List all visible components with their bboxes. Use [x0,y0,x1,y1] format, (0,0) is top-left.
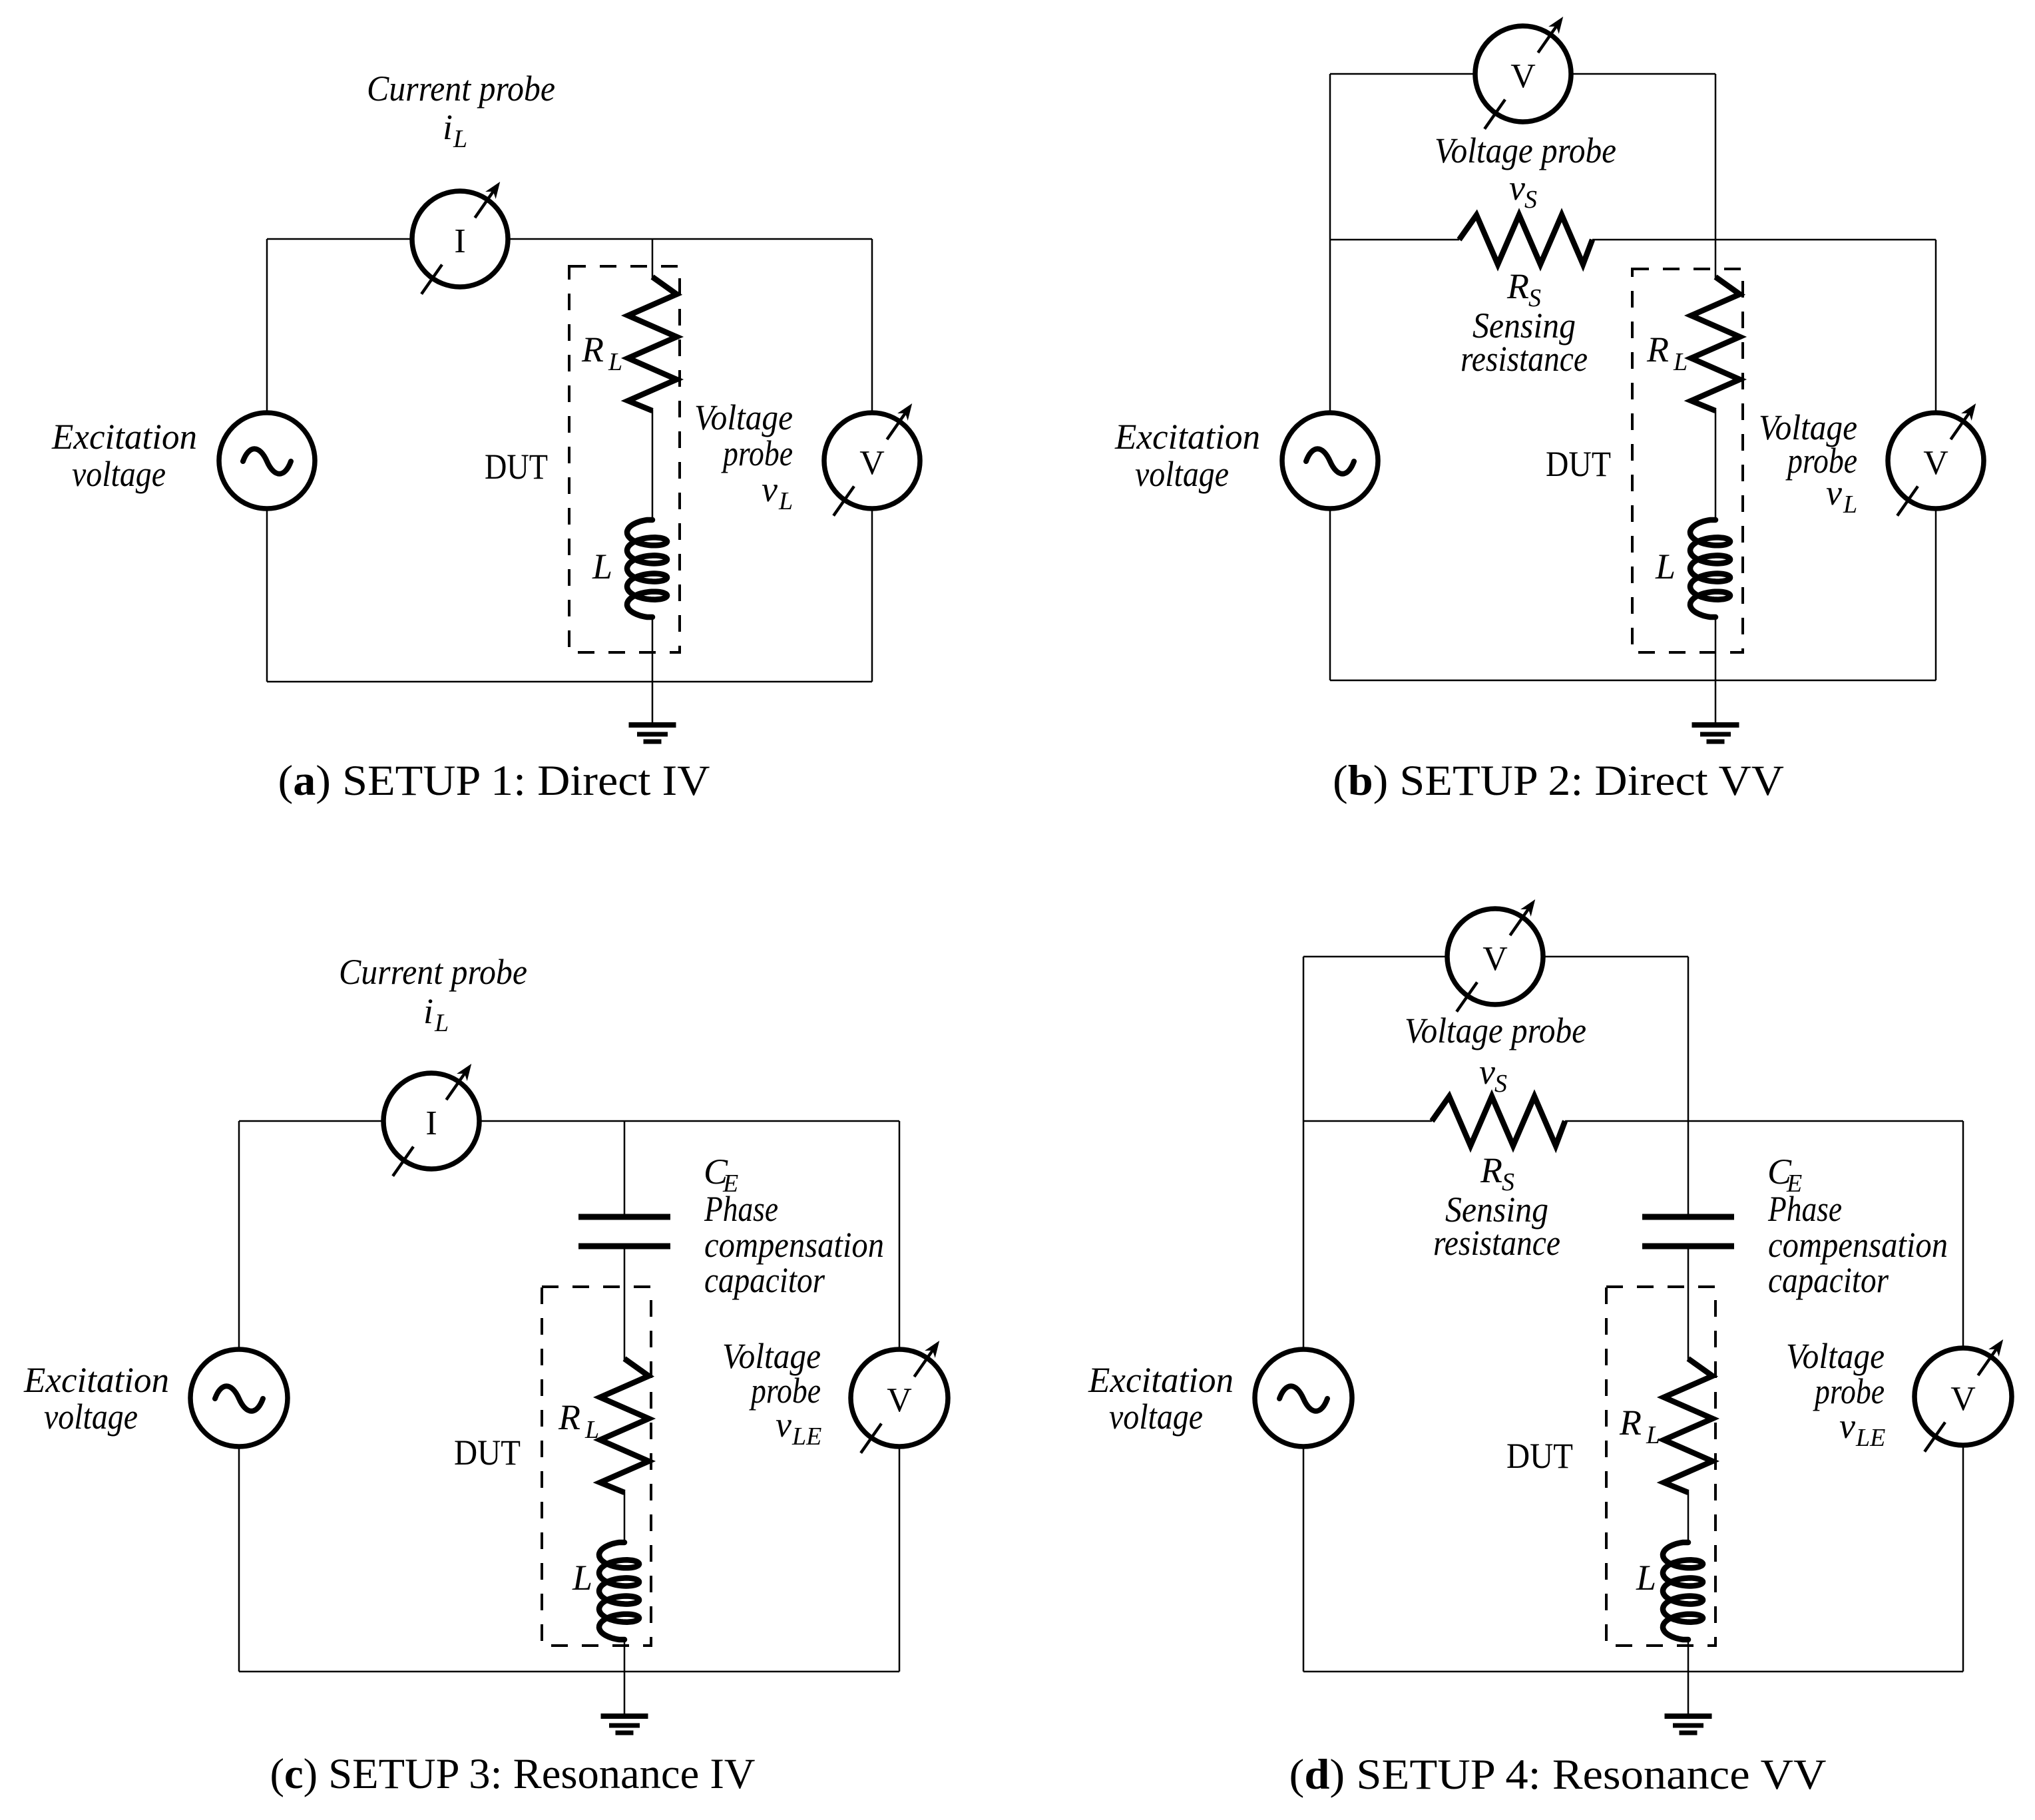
svg-text:R: R [581,330,604,369]
svg-text:L: L [1673,348,1688,376]
svg-text:i: i [443,107,453,147]
svg-text:capacitor: capacitor [1768,1260,1889,1300]
svg-text:L: L [608,348,622,376]
svg-text:DUT: DUT [1506,1436,1573,1476]
svg-text:compensation: compensation [704,1225,884,1265]
svg-text:LE: LE [791,1423,821,1451]
svg-text:probe: probe [721,433,793,473]
svg-text:(c) SETUP 3: Resonance IV: (c) SETUP 3: Resonance IV [270,1750,756,1798]
svg-text:V: V [1923,444,1948,482]
svg-text:R: R [1480,1150,1502,1190]
svg-text:Voltage: Voltage [722,1336,821,1376]
svg-text:v: v [762,469,778,509]
svg-text:L: L [778,487,793,515]
svg-text:R: R [558,1397,580,1437]
svg-text:Voltage: Voltage [1786,1336,1885,1376]
svg-text:(d) SETUP 4: Resonance VV: (d) SETUP 4: Resonance VV [1289,1751,1827,1799]
svg-text:L: L [1655,547,1676,586]
svg-text:V: V [1510,57,1536,95]
svg-text:Excitation: Excitation [1088,1360,1234,1400]
svg-text:resistance: resistance [1461,339,1588,379]
svg-text:DUT: DUT [1546,444,1611,484]
svg-text:v: v [776,1405,791,1445]
svg-text:(b) SETUP 2: Direct VV: (b) SETUP 2: Direct VV [1333,757,1784,805]
svg-text:probe: probe [1813,1371,1885,1411]
svg-text:Excitation: Excitation [51,417,197,457]
svg-text:probe: probe [1785,441,1857,481]
svg-text:voltage: voltage [44,1397,138,1437]
svg-text:Current probe: Current probe [339,952,527,992]
svg-text:LE: LE [1855,1424,1885,1452]
svg-text:I: I [454,222,465,260]
svg-text:S: S [1494,1070,1507,1098]
svg-text:L: L [584,1416,599,1444]
svg-text:DUT: DUT [454,1433,521,1473]
svg-text:L: L [1843,491,1857,519]
svg-text:DUT: DUT [485,447,548,487]
svg-text:V: V [1950,1380,1976,1418]
svg-text:L: L [1646,1421,1660,1449]
svg-text:Voltage probe: Voltage probe [1435,130,1616,170]
svg-text:i: i [423,991,433,1031]
svg-text:V: V [1482,940,1508,978]
svg-text:v: v [1509,168,1525,208]
svg-text:L: L [572,1558,592,1598]
svg-text:Phase: Phase [704,1189,778,1229]
svg-text:L: L [453,125,467,153]
svg-text:Voltage probe: Voltage probe [1405,1011,1586,1050]
svg-text:voltage: voltage [1109,1397,1203,1437]
svg-text:L: L [592,547,612,586]
svg-text:S: S [1524,186,1537,214]
svg-text:L: L [1636,1558,1656,1598]
svg-text:v: v [1826,473,1842,513]
svg-text:Excitation: Excitation [23,1360,169,1400]
svg-text:R: R [1506,266,1529,306]
svg-text:voltage: voltage [1135,454,1229,494]
svg-text:v: v [1839,1406,1855,1446]
svg-text:V: V [887,1381,912,1419]
svg-text:I: I [425,1104,437,1142]
svg-text:L: L [434,1009,449,1037]
svg-text:Voltage: Voltage [694,397,793,437]
svg-text:R: R [1619,1403,1642,1443]
svg-text:capacitor: capacitor [704,1260,825,1300]
svg-text:v: v [1479,1052,1495,1092]
svg-text:Phase: Phase [1767,1189,1842,1229]
svg-text:R: R [1646,330,1669,369]
svg-text:V: V [859,444,885,482]
svg-text:(a) SETUP 1: Direct IV: (a) SETUP 1: Direct IV [278,757,710,805]
svg-text:Current probe: Current probe [367,69,555,109]
svg-text:compensation: compensation [1768,1225,1948,1265]
svg-text:Excitation: Excitation [1114,417,1260,457]
svg-text:voltage: voltage [72,454,166,494]
svg-text:resistance: resistance [1433,1223,1560,1263]
